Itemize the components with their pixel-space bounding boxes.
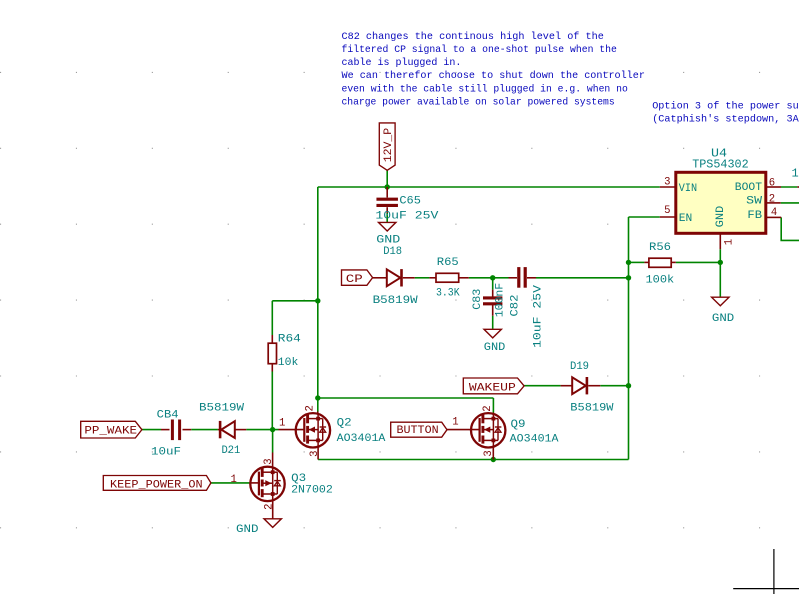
wire CP row <box>415 277 430 279</box>
wire R64 top tee <box>272 300 318 302</box>
wire GND pin net <box>719 249 721 297</box>
U4 pin 6 BOOT <box>766 186 781 188</box>
svg-text:GND: GND <box>712 313 734 325</box>
junction 12V_P <box>385 184 390 189</box>
junction Q9 source <box>491 457 496 462</box>
capacitor CB4 10uF <box>161 429 170 431</box>
wire vertical left rail <box>317 187 319 412</box>
wire BOOT <box>781 186 797 188</box>
wire C83 vertical <box>492 278 494 290</box>
svg-text:GND: GND <box>236 524 259 536</box>
wire bottom rail <box>318 459 628 461</box>
global label PP_WAKE <box>81 421 142 438</box>
svg-text:AO3401A: AO3401A <box>510 433 559 445</box>
svg-text:1: 1 <box>452 417 458 429</box>
svg-text:B5819W: B5819W <box>570 403 613 415</box>
svg-text:10uF: 10uF <box>151 446 181 458</box>
transistor Q3 2N7002 <box>250 482 259 484</box>
wire Q2 drain to Q9 drain <box>318 397 494 399</box>
svg-text:Q9: Q9 <box>511 419 526 431</box>
svg-text:FB: FB <box>747 210 762 222</box>
svg-text:CB4: CB4 <box>157 409 179 421</box>
svg-text:even with the cable still plug: even with the cable still plugged in e.g… <box>342 83 628 95</box>
junction EN-R56 <box>626 260 631 265</box>
wire EN horizontal <box>629 216 660 218</box>
svg-text:cable is plugged in.: cable is plugged in. <box>342 57 462 69</box>
svg-text:CP: CP <box>346 274 363 286</box>
wire PP_WAKE row <box>142 429 161 431</box>
junction R64 top <box>315 298 320 303</box>
svg-text:GND: GND <box>484 342 506 354</box>
junction D19 <box>626 383 631 388</box>
svg-text:AO3401A: AO3401A <box>337 433 386 445</box>
capacitor C83 100nF <box>492 290 494 297</box>
wire 12V_P stub <box>386 170 388 187</box>
svg-text:BUTTON: BUTTON <box>397 425 439 437</box>
svg-text:PP_WAKE: PP_WAKE <box>84 426 137 438</box>
svg-text:D18: D18 <box>383 246 402 258</box>
U4 pin 4 FB <box>766 216 781 218</box>
diode D19 B5819W <box>561 385 573 387</box>
svg-text:C83: C83 <box>472 289 484 310</box>
svg-text:KEEP_POWER_ON: KEEP_POWER_ON <box>110 479 203 491</box>
svg-text:charge power available on sola: charge power available on solar powered … <box>342 96 615 108</box>
diode D18 B5819W <box>373 277 387 279</box>
transistor Q9 AO3401A <box>446 429 479 431</box>
resistor R56 100k <box>644 261 649 263</box>
svg-text:1: 1 <box>792 167 799 181</box>
svg-text:C65: C65 <box>399 195 421 207</box>
svg-text:2: 2 <box>263 504 275 510</box>
svg-text:3: 3 <box>483 450 495 456</box>
global label KEEP_POWER_ON <box>103 476 211 491</box>
svg-text:EN: EN <box>679 213 693 225</box>
svg-text:D21: D21 <box>222 445 241 457</box>
svg-text:100k: 100k <box>646 275 675 287</box>
U4 pin 5 EN <box>660 216 676 218</box>
wire SW <box>781 202 799 204</box>
wire C82 segs <box>493 277 509 279</box>
svg-text:We can therefor choose to shut: We can therefor choose to shut down the … <box>342 70 645 82</box>
svg-text:2: 2 <box>482 405 494 411</box>
IC U4 TPS54302 body <box>676 172 766 233</box>
ground below U4 GND <box>712 297 729 306</box>
svg-text:100nF: 100nF <box>494 283 506 318</box>
svg-text:4: 4 <box>771 207 777 219</box>
svg-text:3: 3 <box>664 176 670 188</box>
svg-text:TPS54302: TPS54302 <box>692 158 749 172</box>
svg-text:Option 3 of the power su: Option 3 of the power su <box>652 100 799 112</box>
wire KEEP_POWER_ON to Q3 gate <box>211 482 250 484</box>
capacitor C82 10uF 25V <box>509 277 518 279</box>
svg-text:2: 2 <box>305 405 317 411</box>
U4 pin 2 SW <box>766 202 781 204</box>
svg-text:GND: GND <box>376 235 400 247</box>
ground below C65 <box>379 222 396 231</box>
svg-text:C82: C82 <box>510 294 522 316</box>
ground below Q3 <box>264 519 281 528</box>
svg-text:GND: GND <box>715 206 727 228</box>
junction Q2 drain <box>315 395 320 400</box>
U4 pin 1 GND <box>719 233 721 249</box>
wire Q3 drain <box>272 430 274 453</box>
svg-text:B5819W: B5819W <box>199 403 244 415</box>
svg-text:VIN: VIN <box>679 183 697 195</box>
svg-text:filtered CP signal to a one-sh: filtered CP signal to a one-shot pulse w… <box>342 44 617 56</box>
svg-text:10k: 10k <box>278 357 299 369</box>
global label WAKEUP <box>463 378 524 394</box>
svg-text:1: 1 <box>231 474 237 486</box>
resistor R64 10k <box>271 335 273 343</box>
svg-text:SW: SW <box>746 195 762 207</box>
U4 pin 3 VIN <box>660 186 676 188</box>
ground below C83 <box>484 329 501 338</box>
wire R64 bottom <box>271 372 273 430</box>
junction CP filter <box>490 275 495 280</box>
svg-text:R64: R64 <box>278 334 301 346</box>
svg-text:R65: R65 <box>437 257 459 269</box>
svg-text:R56: R56 <box>649 242 671 254</box>
junction R56 right <box>718 260 723 265</box>
svg-text:D19: D19 <box>570 361 589 373</box>
wire FB <box>781 217 799 240</box>
diode D21 B5819W <box>218 429 221 431</box>
svg-text:(Catphish's stepdown, 3A: (Catphish's stepdown, 3A <box>652 113 799 125</box>
junction PP_WAKE node <box>270 427 275 432</box>
svg-text:10uF 25V: 10uF 25V <box>375 211 438 223</box>
wire main 12V horizontal <box>318 186 660 188</box>
svg-text:1: 1 <box>724 239 736 245</box>
wire WAKEUP row <box>524 385 561 387</box>
power flag 12V_P <box>379 123 395 170</box>
sheet corner marker <box>773 549 775 594</box>
svg-text:C82 changes the continous high: C82 changes the continous high level of … <box>342 31 604 43</box>
wire C65 gnd seg <box>386 213 388 222</box>
wire R56 row <box>629 261 645 263</box>
svg-text:3.3K: 3.3K <box>436 287 460 299</box>
svg-text:2N7002: 2N7002 <box>291 484 333 496</box>
resistor R65 3.3K <box>429 277 436 279</box>
global label CP <box>342 270 373 285</box>
transistor Q2 AO3401A <box>279 429 305 431</box>
grid dots (decorative) <box>0 72 760 527</box>
svg-text:2: 2 <box>769 193 775 205</box>
junction EN-C82 <box>626 275 631 280</box>
svg-text:3: 3 <box>263 458 275 464</box>
wire right rail EN <box>628 217 630 460</box>
svg-text:5: 5 <box>664 205 670 217</box>
svg-text:B5819W: B5819W <box>373 295 418 307</box>
svg-text:10uF 25V: 10uF 25V <box>532 285 544 348</box>
svg-text:Q3: Q3 <box>291 473 306 485</box>
svg-text:12V_P: 12V_P <box>383 128 395 163</box>
svg-text:3: 3 <box>309 451 321 457</box>
capacitor C65 <box>386 187 388 198</box>
global label BUTTON <box>391 422 447 437</box>
svg-text:WAKEUP: WAKEUP <box>469 383 516 395</box>
svg-text:BOOT: BOOT <box>735 182 762 194</box>
svg-text:1: 1 <box>279 418 285 430</box>
svg-text:Q2: Q2 <box>337 418 352 430</box>
svg-text:6: 6 <box>769 177 775 189</box>
